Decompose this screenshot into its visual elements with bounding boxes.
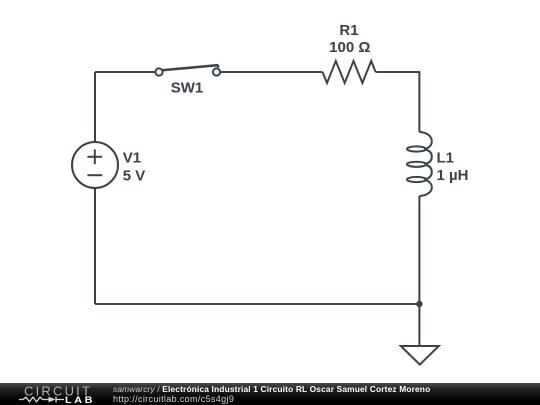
svg-text:100 Ω: 100 Ω — [329, 39, 370, 56]
svg-text:V1: V1 — [123, 150, 141, 167]
footer url line 2 — [113, 394, 234, 404]
resistor R1 — [323, 61, 376, 83]
svg-text:5 V: 5 V — [123, 167, 146, 184]
logo resistor squiggle — [19, 397, 49, 402]
footer bar — [0, 383, 540, 405]
wire: top-left corner to switch left terminal — [95, 71, 156, 73]
svg-text:L1: L1 — [437, 150, 455, 167]
svg-text:LAB: LAB — [65, 396, 95, 405]
logo diode — [49, 397, 56, 403]
wire: bottom horizontal — [95, 303, 419, 305]
wire: voltage source V1 to bottom-left corner — [94, 188, 96, 304]
CircuitLab logo — [0, 383, 110, 405]
wire: junction to ground — [418, 304, 420, 346]
svg-text:R1: R1 — [339, 22, 358, 39]
svg-text:SW1: SW1 — [171, 80, 204, 97]
inductor L1 — [407, 132, 432, 196]
wire: top-left corner down to voltage source V1 — [94, 72, 96, 142]
svg-text:1 µH: 1 µH — [437, 167, 469, 184]
voltage source V1 — [72, 142, 118, 188]
wire: switch right terminal to resistor R1 — [220, 71, 322, 73]
wire: inductor L1 to bottom junction — [418, 196, 420, 304]
ground — [401, 346, 439, 365]
node: junction dot — [416, 301, 422, 307]
switch SW1 — [155, 65, 220, 75]
wire: resistor R1 to top-right corner and down to inductor L1 — [376, 72, 420, 132]
footer credit text line 1 — [113, 384, 430, 394]
